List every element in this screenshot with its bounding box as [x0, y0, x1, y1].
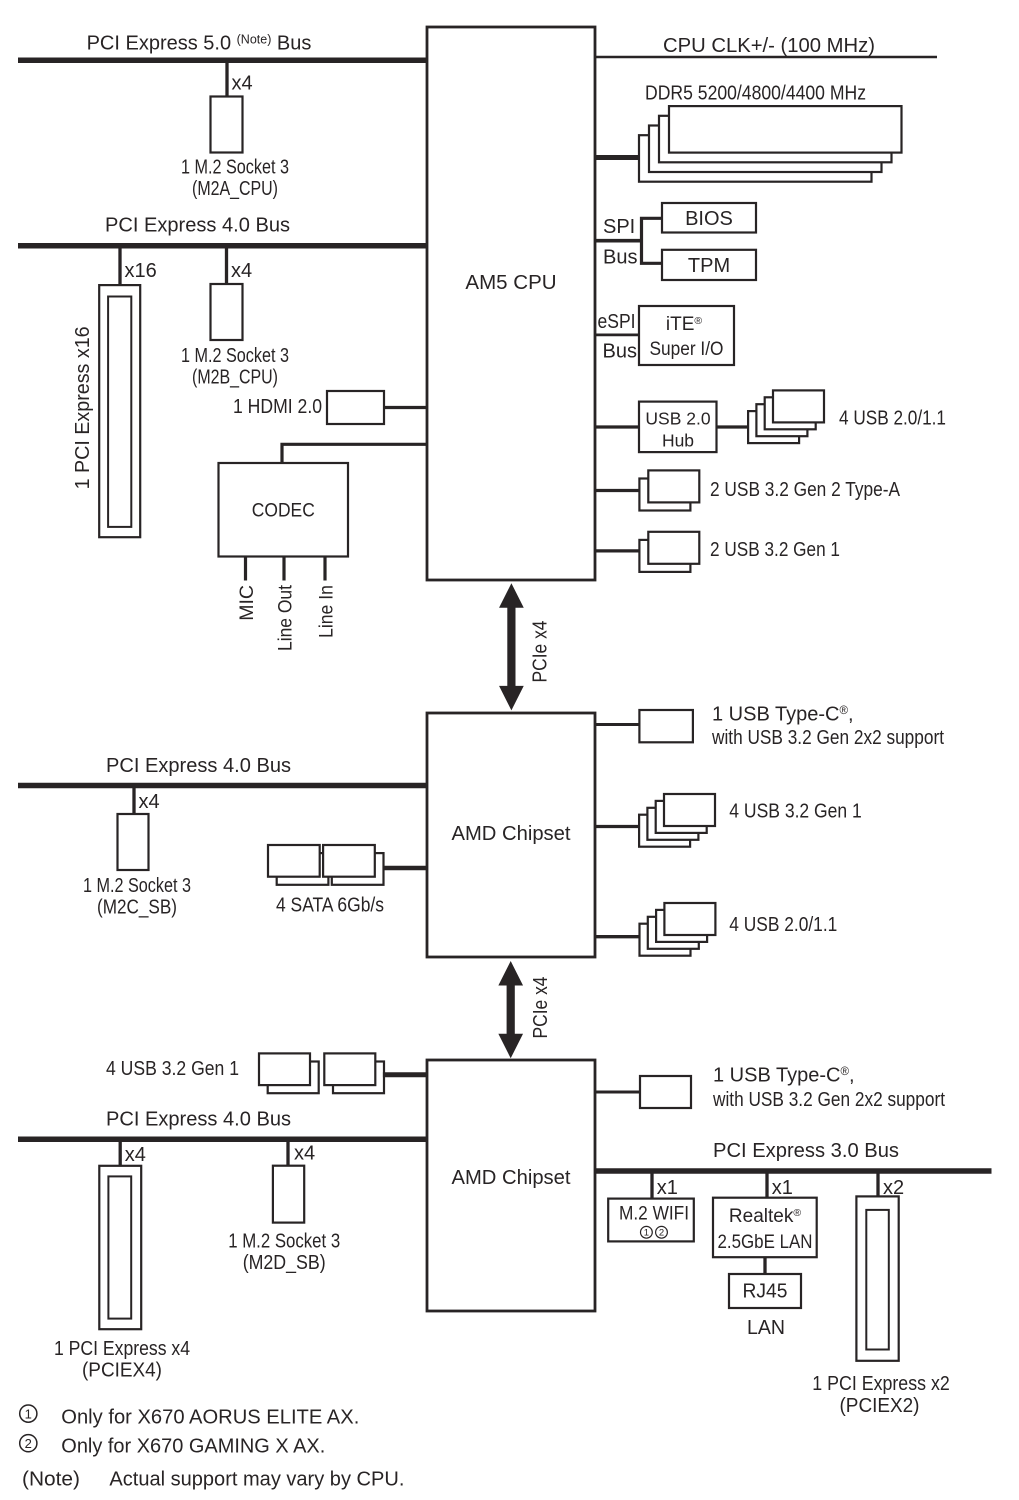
- box: USB 2.0 Hub: [639, 402, 717, 453]
- svg-text:4 USB 2.0/1.1: 4 USB 2.0/1.1: [839, 408, 946, 430]
- svg-text:LAN: LAN: [747, 1317, 785, 1339]
- svg-text:2: 2: [659, 1228, 664, 1239]
- svg-text:PCI Express 4.0 Bus: PCI Express 4.0 Bus: [105, 215, 290, 237]
- wire: SATA to chipset1: [383, 866, 427, 871]
- svg-text:x4: x4: [294, 1143, 315, 1165]
- svg-text:1 M.2 Socket 3: 1 M.2 Socket 3: [181, 345, 289, 367]
- slot: PCIEX2 inner: [866, 1210, 889, 1350]
- box: CODEC: [219, 463, 349, 557]
- slot: PCIEX4 outer: [99, 1166, 141, 1329]
- wire: SPI bus: [595, 239, 642, 243]
- wire: bus4 to M2B: [225, 246, 228, 284]
- svg-text:x16: x16: [125, 260, 157, 282]
- box: BIOS: [662, 203, 756, 233]
- stack: 4 USB 2.0 ports (chipset1): [640, 903, 716, 956]
- stack: 4 USB 3.2 Gen 1 ports (chipset1): [639, 794, 715, 847]
- svg-text:2 USB 3.2 Gen 2 Type-A: 2 USB 3.2 Gen 2 Type-A: [710, 479, 901, 501]
- svg-text:1 USB Type-C®,: 1 USB Type-C®,: [712, 704, 854, 726]
- box: iTE Super I/O: [639, 306, 734, 365]
- box: HDMI port: [327, 391, 384, 424]
- wire: chipset1 to USB2.0: [595, 935, 639, 938]
- stack: USB 3.2 Gen1 pair A (chipset2): [259, 1053, 319, 1093]
- svg-text:2: 2: [25, 1436, 32, 1451]
- svg-text:Hub: Hub: [662, 431, 694, 451]
- wire: chipset2 to USB-C: [595, 1091, 640, 1094]
- wire: bus to M2D: [286, 1140, 289, 1166]
- svg-text:1 PCI Express x4: 1 PCI Express x4: [54, 1338, 190, 1360]
- svg-text:1 HDMI 2.0: 1 HDMI 2.0: [233, 396, 322, 418]
- svg-text:Bus: Bus: [603, 341, 637, 363]
- wire: Realtek to RJ45: [763, 1257, 766, 1274]
- svg-text:4 USB 3.2 Gen 1: 4 USB 3.2 Gen 1: [106, 1058, 239, 1080]
- wire: eSPI bus: [595, 333, 639, 336]
- svg-text:PCI Express 5.0 (Note) Bus: PCI Express 5.0 (Note) Bus: [87, 33, 312, 55]
- svg-text:4 USB 3.2 Gen 1: 4 USB 3.2 Gen 1: [729, 801, 862, 823]
- svg-text:RJ45: RJ45: [743, 1281, 788, 1303]
- wire: CODEC Line In stub: [323, 557, 326, 581]
- svg-text:1 PCI Express x16: 1 PCI Express x16: [72, 326, 94, 489]
- wire: CPU to CODEC: [282, 444, 427, 463]
- slot: PCI Express x16 inner: [108, 297, 131, 527]
- svg-text:(PCIEX4): (PCIEX4): [82, 1360, 162, 1382]
- wire: bus4 to x16 slot: [118, 246, 121, 285]
- svg-text:Only for X670 AORUS ELITE AX.: Only for X670 AORUS ELITE AX.: [61, 1406, 359, 1428]
- svg-text:1: 1: [25, 1406, 32, 1421]
- wire: bus3 to Realtek: [765, 1172, 768, 1198]
- svg-text:CODEC: CODEC: [252, 501, 315, 522]
- svg-text:BIOS: BIOS: [685, 208, 733, 230]
- wire: hub to USB ports: [717, 425, 749, 428]
- wire: CODEC Line Out stub: [282, 557, 285, 581]
- svg-text:AMD Chipset: AMD Chipset: [452, 1167, 571, 1189]
- bus: PCI Express 4.0 (bottom): [18, 1136, 427, 1142]
- svg-text:4 SATA 6Gb/s: 4 SATA 6Gb/s: [276, 895, 384, 917]
- bus: PCI Express 4.0 (upper): [18, 243, 427, 249]
- svg-text:M.2 WIFI: M.2 WIFI: [619, 1204, 689, 1225]
- svg-text:x1: x1: [772, 1177, 793, 1199]
- stack: 4 USB 2.0 ports (CPU): [748, 390, 824, 443]
- svg-text:TPM: TPM: [688, 255, 730, 277]
- svg-text:x4: x4: [231, 260, 252, 282]
- svg-text:Only for X670 GAMING X AX.: Only for X670 GAMING X AX.: [61, 1436, 325, 1458]
- stack: SATA ports left pair: [268, 845, 328, 885]
- stack: SATA ports right pair: [323, 845, 383, 885]
- svg-text:Actual support may vary by CPU: Actual support may vary by CPU.: [109, 1469, 404, 1491]
- svg-text:Super I/O: Super I/O: [650, 339, 724, 360]
- wire: chipset1 to USB3.2 Gen1: [595, 825, 639, 828]
- box: USB Type-C port (2): [640, 1076, 691, 1108]
- svg-text:PCIe x4: PCIe x4: [530, 621, 552, 683]
- svg-text:Line Out: Line Out: [274, 584, 296, 651]
- stack: 2 USB 3.2 Gen 1 ports: [639, 532, 699, 572]
- svg-text:1 M.2 Socket 3: 1 M.2 Socket 3: [228, 1230, 340, 1252]
- wire: CPU to DDR5: [595, 155, 639, 160]
- svg-text:2.5GbE LAN: 2.5GbE LAN: [718, 1232, 813, 1253]
- svg-text:2 USB 3.2 Gen 1: 2 USB 3.2 Gen 1: [710, 539, 840, 561]
- wire: bus to PCIEX4: [119, 1140, 122, 1166]
- svg-text:MIC: MIC: [236, 585, 258, 621]
- box: AMD Chipset (2): [427, 1060, 595, 1311]
- svg-text:(M2C_SB): (M2C_SB): [97, 897, 177, 919]
- wire: CPU to USB hub: [595, 425, 639, 428]
- svg-text:Bus: Bus: [603, 246, 637, 268]
- wire: bus3 to PCIEX2: [876, 1172, 879, 1196]
- svg-text:x1: x1: [657, 1177, 678, 1199]
- svg-text:PCI Express 3.0 Bus: PCI Express 3.0 Bus: [713, 1140, 899, 1162]
- svg-text:with USB 3.2 Gen 2x2 support: with USB 3.2 Gen 2x2 support: [711, 727, 944, 749]
- wire: USB stacks to chipset2: [383, 1072, 427, 1077]
- wire: chipset1 to USB-C: [595, 723, 639, 726]
- bus: PCI Express 5.0: [18, 58, 427, 64]
- svg-text:with USB 3.2 Gen 2x2 support: with USB 3.2 Gen 2x2 support: [712, 1089, 945, 1111]
- wire: CPU to USB3.2 Gen2: [595, 489, 639, 492]
- svg-text:(M2D_SB): (M2D_SB): [243, 1252, 326, 1274]
- box: M.2 Socket (M2C_SB): [118, 814, 149, 870]
- svg-text:DDR5 5200/4800/4400 MHz: DDR5 5200/4800/4400 MHz: [645, 83, 866, 105]
- mark: circled 2 (WIFI): [656, 1226, 668, 1238]
- box: M.2 Socket (M2A_CPU): [211, 97, 243, 153]
- svg-text:1 USB Type-C®,: 1 USB Type-C®,: [713, 1065, 855, 1087]
- svg-text:SPI: SPI: [603, 216, 635, 238]
- svg-text:Line In: Line In: [315, 585, 337, 638]
- mark: circled 1 (WIFI): [641, 1226, 653, 1238]
- wire: SPI bracket: [642, 218, 663, 263]
- box: USB Type-C port (1): [639, 710, 693, 742]
- wire: CODEC MIC stub: [244, 557, 247, 581]
- slot: PCIEX2 outer: [856, 1196, 898, 1360]
- stack: DDR5 DIMMs: [639, 106, 902, 182]
- svg-text:PCIe x4: PCIe x4: [530, 977, 552, 1039]
- label: note marks 1 2 (WIFI): [641, 1226, 668, 1238]
- wire: CPU CLK: [595, 56, 937, 59]
- svg-text:x4: x4: [232, 73, 253, 95]
- mark: circled 2 (note): [20, 1435, 37, 1452]
- svg-text:4 USB 2.0/1.1: 4 USB 2.0/1.1: [729, 914, 837, 936]
- box: AMD Chipset (1): [427, 713, 595, 957]
- svg-text:1: 1: [644, 1228, 649, 1239]
- svg-text:USB 2.0: USB 2.0: [645, 409, 710, 429]
- svg-text:(Note): (Note): [22, 1469, 80, 1491]
- svg-text:1 PCI Express x2: 1 PCI Express x2: [812, 1373, 950, 1395]
- box: M.2 Socket (M2B_CPU): [211, 284, 243, 340]
- wire: bus to M2C: [132, 786, 135, 814]
- box: M.2 WIFI: [608, 1199, 694, 1242]
- wire: CPU to USB3.2 Gen1: [595, 549, 639, 552]
- svg-text:Realtek®: Realtek®: [729, 1206, 801, 1227]
- slot: PCI Express x16 outer: [99, 285, 140, 537]
- stack: USB 3.2 Gen1 pair B (chipset2): [324, 1053, 384, 1093]
- box: AM5 CPU: [427, 27, 595, 580]
- svg-text:x4: x4: [125, 1144, 146, 1166]
- svg-text:1 M.2 Socket 3: 1 M.2 Socket 3: [83, 875, 191, 897]
- arrow: PCIe x4 (chipset-chipset): [498, 961, 523, 1058]
- svg-text:(PCIEX2): (PCIEX2): [840, 1395, 920, 1417]
- stack: 2 USB 3.2 Gen 2 ports: [639, 470, 699, 510]
- box: TPM: [662, 250, 756, 280]
- svg-text:PCI Express 4.0 Bus: PCI Express 4.0 Bus: [106, 1109, 291, 1131]
- box: M.2 Socket (M2D_SB): [273, 1166, 304, 1223]
- svg-text:(M2B_CPU): (M2B_CPU): [192, 367, 278, 389]
- arrow: PCIe x4 (CPU-chipset): [499, 583, 524, 710]
- slot: PCIEX4 inner: [108, 1176, 131, 1318]
- svg-text:AM5 CPU: AM5 CPU: [465, 271, 556, 294]
- bus: PCI Express 4.0 (middle): [18, 783, 427, 789]
- svg-text:x4: x4: [139, 791, 160, 813]
- mark: circled 1 (note): [20, 1405, 37, 1422]
- svg-text:PCI Express 4.0 Bus: PCI Express 4.0 Bus: [106, 755, 291, 777]
- svg-text:CPU CLK+/- (100 MHz): CPU CLK+/- (100 MHz): [663, 35, 875, 57]
- svg-text:AMD Chipset: AMD Chipset: [452, 823, 571, 845]
- box: Realtek 2.5GbE LAN: [713, 1198, 817, 1258]
- wire: bus3 to M.2 WIFI: [650, 1172, 653, 1199]
- box: RJ45: [729, 1274, 801, 1308]
- bus: PCI Express 3.0: [595, 1168, 992, 1174]
- svg-text:1 M.2 Socket 3: 1 M.2 Socket 3: [181, 157, 289, 179]
- wire: bus5 to M2A: [225, 60, 228, 97]
- svg-text:(M2A_CPU): (M2A_CPU): [192, 178, 278, 200]
- svg-text:eSPI: eSPI: [598, 311, 636, 333]
- wire: HDMI to CPU: [384, 406, 427, 409]
